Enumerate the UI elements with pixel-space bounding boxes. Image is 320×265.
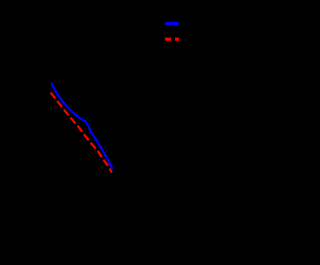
legend red dashed sample [165, 38, 179, 41]
red dashed data line [51, 93, 112, 173]
legend blue line sample [165, 22, 179, 25]
blue solid data line [51, 83, 112, 169]
